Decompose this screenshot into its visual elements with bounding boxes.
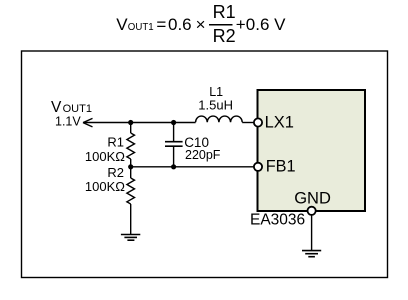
ground (below R2) [121, 235, 140, 241]
wire: inductor to LX1 pin [242, 122, 254, 124]
svg-text:+: + [236, 15, 246, 34]
wire: GND pin to ground [311, 215, 313, 251]
inductor L1 1.5uH [196, 85, 243, 122]
svg-text:V: V [116, 15, 128, 34]
svg-text:R2: R2 [107, 165, 124, 180]
svg-text:0.6 V: 0.6 V [246, 15, 286, 34]
svg-text:EA3036: EA3036 [250, 212, 305, 229]
capacitor C10 220pF [165, 123, 221, 167]
svg-text:=: = [156, 15, 166, 34]
pin FB1 [254, 158, 296, 176]
node VOUT1 output arrow and labels [51, 99, 93, 128]
junction node C (R1/R2 divider) [128, 164, 133, 169]
svg-text:OUT1: OUT1 [63, 103, 92, 115]
svg-text:100KΩ: 100KΩ [85, 149, 125, 164]
svg-text:220pF: 220pF [185, 148, 221, 162]
pin GND [294, 190, 331, 215]
resistor R1 100K [85, 123, 135, 167]
svg-text:×: × [196, 15, 206, 34]
ground (below GND pin) [302, 251, 321, 257]
pin LX1 [254, 114, 294, 132]
junction node B (top of C10) [171, 120, 176, 125]
svg-text:R1: R1 [107, 135, 124, 150]
formula VOUT1 = 0.6 x R1/R2 + 0.6 V [116, 2, 286, 46]
svg-text:0.6: 0.6 [168, 15, 192, 34]
IC U1 EA3036 body [250, 90, 365, 229]
svg-text:FB1: FB1 [266, 158, 296, 176]
svg-text:1.1V: 1.1V [55, 114, 81, 128]
svg-text:R2: R2 [213, 26, 236, 46]
wire: feedback net R1/R2 node to FB1 [131, 166, 254, 168]
junction node D (bottom of C10) [171, 164, 176, 169]
junction node A (top of R1) [128, 120, 133, 125]
wire: main output net from arrow to inductor [83, 122, 195, 124]
svg-text:LX1: LX1 [265, 114, 294, 132]
svg-text:1.5uH: 1.5uH [198, 98, 233, 113]
svg-text:OUT1: OUT1 [128, 22, 154, 33]
svg-text:R1: R1 [213, 2, 236, 22]
resistor R2 100K [85, 165, 135, 235]
svg-text:100KΩ: 100KΩ [85, 179, 125, 194]
svg-text:GND: GND [294, 190, 331, 208]
